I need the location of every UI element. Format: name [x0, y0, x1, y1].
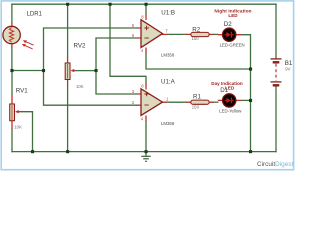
wire R2 to D2	[214, 33, 218, 35]
RV2 track line	[67, 64, 69, 79]
svg-text:9V: 9V	[285, 66, 290, 71]
wire U1:B pin4 to negative rail	[146, 53, 251, 69]
svg-text:RV2: RV2	[74, 43, 86, 50]
svg-text:LED: LED	[225, 85, 235, 90]
op-amp U1:B	[132, 10, 175, 58]
RV1 track line	[11, 105, 13, 120]
svg-text:LED-GREEN: LED-GREEN	[220, 43, 245, 48]
resistor R1	[186, 93, 214, 109]
svg-text:LM358: LM358	[161, 53, 175, 58]
RV1 wiper arrow	[19, 111, 21, 113]
wire RV1 bottom to ground	[11, 129, 13, 152]
svg-text:D2: D2	[224, 21, 232, 28]
RV2 pin stubs	[67, 58, 69, 86]
svg-text:LDR1: LDR1	[27, 11, 43, 17]
R2 body	[191, 32, 209, 36]
RV1 pin stubs	[11, 96, 13, 130]
battery B1	[271, 59, 293, 85]
R2 pin stubs	[186, 33, 214, 35]
wire RV2 top	[67, 4, 69, 57]
RV2 body	[65, 63, 70, 80]
B1 plate long bottom	[271, 81, 282, 83]
node divider tap	[42, 69, 45, 72]
node U1:B pin8 on V+ bus	[145, 3, 148, 6]
wire D2 cathode down the negative rail	[241, 35, 250, 152]
LDR1 internal resistor zigzag	[9, 28, 13, 43]
wire RV1 wiper to ground	[20, 112, 33, 152]
node RV2 bottom on ground bus	[66, 150, 69, 153]
wire R1 to D1	[214, 101, 218, 103]
node U1:A pin4 on ground bus	[145, 150, 148, 153]
LDR1 light arrow 2	[25, 45, 33, 49]
node RV2 wiper reference	[95, 69, 98, 72]
U1:A plus input mark	[144, 92, 148, 96]
U1:A minus input mark	[144, 104, 148, 106]
LDR1 body circle	[3, 26, 20, 43]
LED D2	[214, 8, 251, 47]
U1:B minus input mark	[144, 37, 148, 39]
svg-text:CircuitDigest: CircuitDigest	[257, 161, 293, 168]
B1 plate short bottom	[273, 84, 280, 86]
B1 plate long top	[271, 58, 282, 60]
U1:B pin stubs	[137, 15, 168, 54]
svg-text:R2: R2	[192, 26, 200, 33]
node LDR / RV1 divider	[10, 69, 13, 72]
wire LDR bottom to divider node	[11, 48, 13, 71]
node negative rail on ground bus	[249, 150, 252, 153]
svg-text:150: 150	[192, 36, 200, 41]
D2 pin stubs	[218, 34, 242, 36]
svg-text:RV1: RV1	[16, 88, 28, 95]
svg-text:LED: LED	[228, 13, 238, 18]
node RV2 top on V+ bus	[66, 3, 69, 6]
U1:A triangle body	[141, 89, 163, 116]
B1 plate short top	[273, 61, 280, 63]
wire divider node to U1:A pin2	[44, 71, 137, 106]
U1:B plus input mark	[144, 26, 148, 30]
node RV1 wiper on ground bus	[31, 150, 34, 153]
U1:A pin stubs	[137, 84, 167, 122]
wire U1:B pin8 from V+	[145, 4, 147, 14]
wire RV1 top	[11, 71, 13, 96]
LDR1 pin stubs	[11, 23, 13, 48]
R1 pin stubs	[186, 101, 214, 103]
svg-text:LED-Yellow: LED-Yellow	[219, 109, 242, 114]
potentiometer RV2	[65, 43, 86, 89]
svg-text:R1: R1	[193, 93, 201, 100]
ground	[141, 152, 150, 162]
RV1 body	[10, 104, 15, 121]
svg-text:U1:A: U1:A	[161, 79, 176, 86]
wire V+ to U1:A pin8	[110, 4, 146, 83]
wire U1:A output to R1	[167, 101, 186, 103]
op-amp U1:A	[132, 79, 176, 126]
wire reference node to U1:A pin3	[96, 71, 137, 94]
node D1 cathode on negative rail	[249, 99, 252, 102]
LDR1	[3, 11, 43, 49]
svg-text:150: 150	[192, 104, 200, 109]
wire D1 cathode to negative rail	[241, 99, 250, 101]
wire ground bottom bus	[12, 151, 276, 153]
svg-text:10K: 10K	[14, 125, 22, 130]
U1:B triangle body	[141, 20, 163, 48]
wire RV2 wiper to reference node	[76, 70, 97, 72]
wire battery positive drop	[275, 4, 277, 58]
LDR1 light arrow 1	[26, 42, 34, 46]
resistor R2	[186, 26, 214, 41]
node U1:B pin4 on negative rail	[249, 68, 252, 71]
wire U1:B output to R2	[168, 33, 187, 35]
node U1:A power feed on V+ bus	[109, 3, 112, 6]
wire divider node to U1:B pin5	[44, 28, 137, 71]
B1 dashed cell link	[275, 64, 277, 81]
potentiometer RV1	[10, 88, 29, 130]
D1 diode symbol	[226, 98, 231, 103]
wire reference node to U1:B pin6	[96, 38, 137, 71]
svg-text:10K: 10K	[76, 84, 84, 89]
D2 body circle	[223, 28, 236, 41]
R1 body	[191, 100, 209, 104]
wire battery negative to ground bus	[275, 87, 277, 152]
svg-text:LM358: LM358	[161, 121, 175, 126]
RV2 wiper arrow	[74, 70, 76, 72]
wire LDR top	[11, 4, 13, 23]
wire divider node horizontal	[12, 70, 44, 72]
D2 diode symbol	[226, 32, 231, 37]
D1 pin stubs	[218, 99, 242, 101]
wire U1:A pin4 to ground bus	[145, 121, 147, 152]
wire RV2 bottom to ground	[67, 86, 69, 152]
svg-text:U1:B: U1:B	[161, 10, 175, 17]
wire V+ top bus	[12, 3, 276, 5]
D1 body circle	[223, 94, 236, 107]
LED D1	[211, 81, 243, 114]
